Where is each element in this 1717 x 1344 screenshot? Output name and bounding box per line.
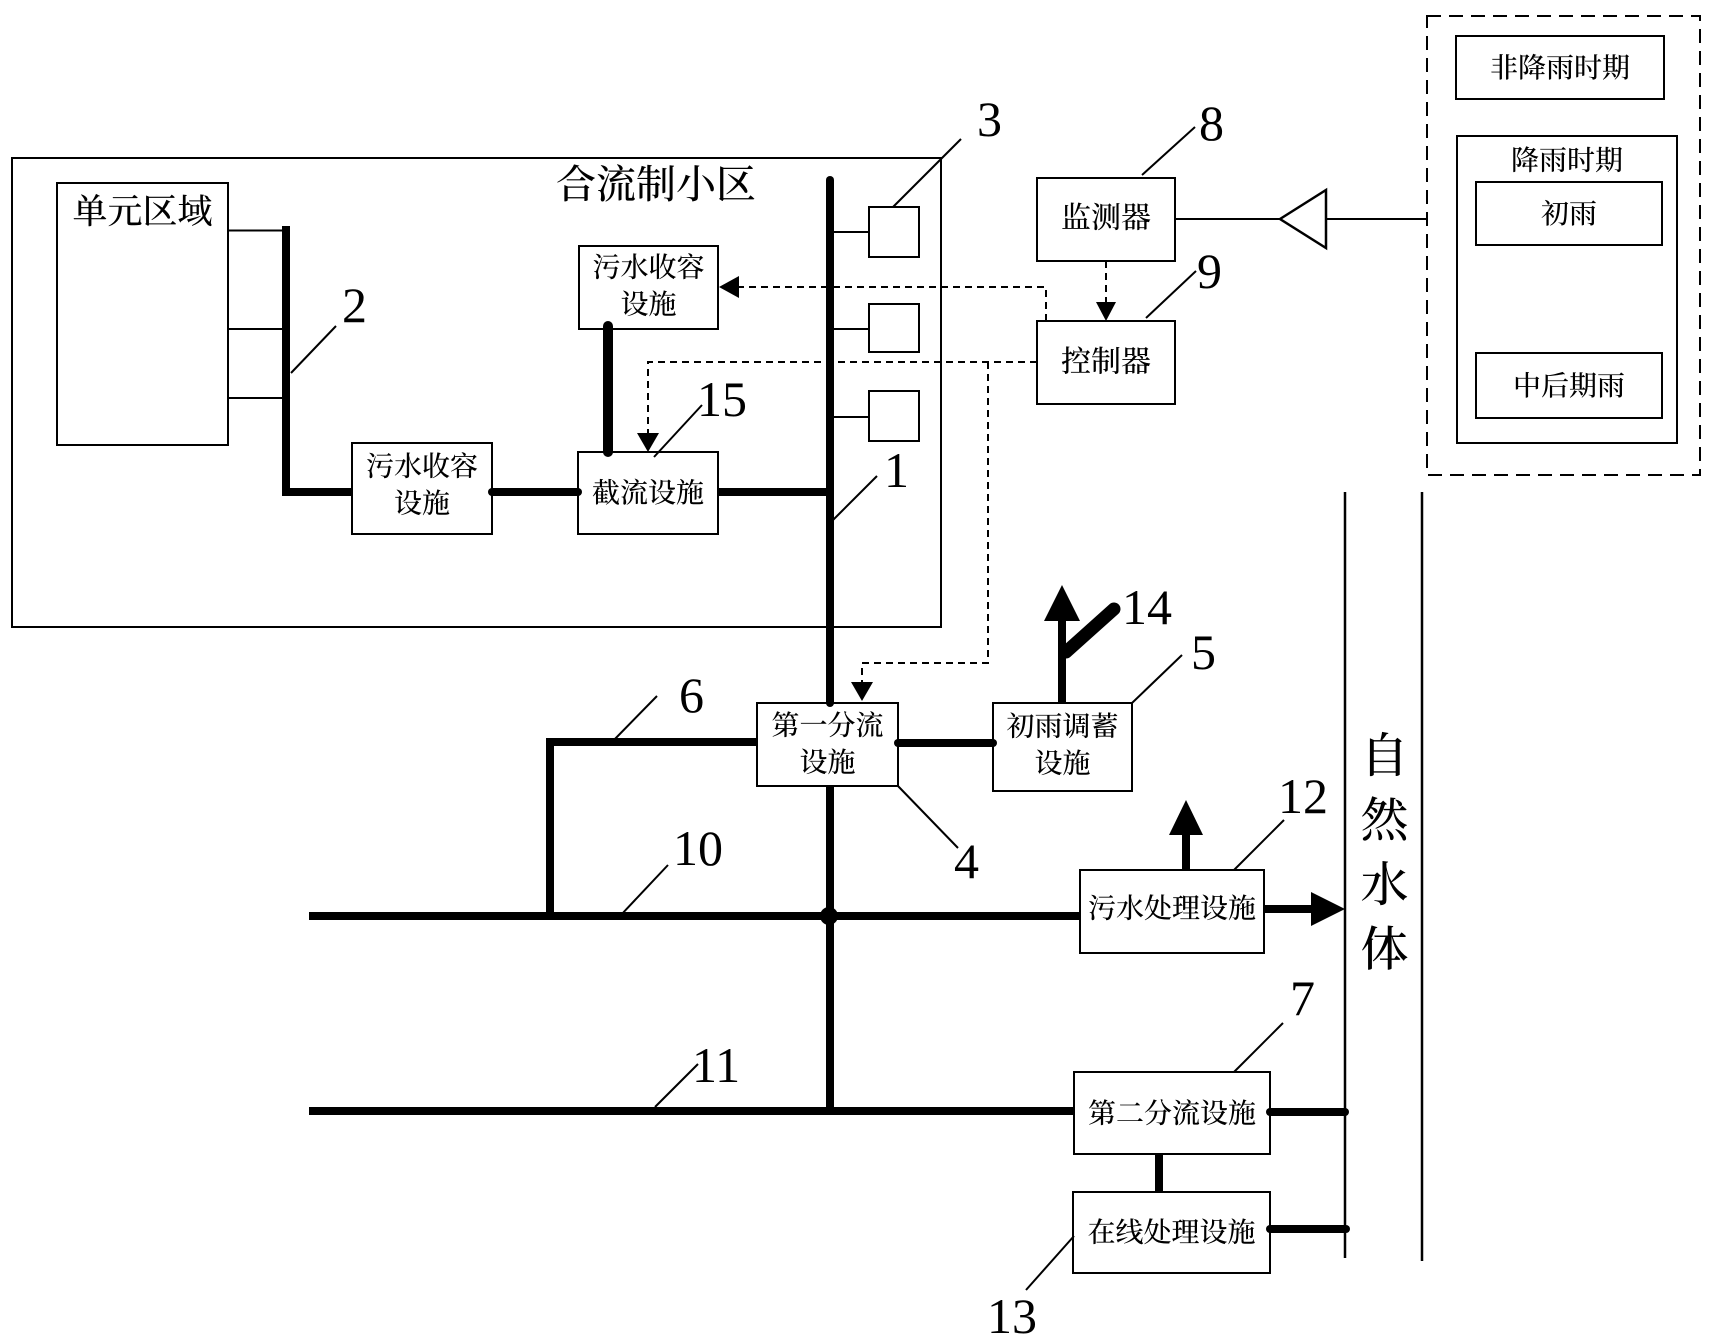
outer box combined-sewer district xyxy=(12,158,941,627)
leader 7 xyxy=(1234,1023,1283,1072)
leader 2 xyxy=(291,326,336,373)
leader 10 xyxy=(620,865,668,916)
arrowhead treatment right xyxy=(1311,892,1345,926)
label 初雨 xyxy=(1542,200,1596,226)
connector unit-area line b xyxy=(228,328,286,330)
leader 4 xyxy=(897,785,958,848)
connector main to manhole 3c xyxy=(834,416,869,418)
box 在线处理设施 (online treatment) xyxy=(1073,1192,1270,1273)
dashed controller to interceptor xyxy=(648,362,1037,436)
arrowhead to containment xyxy=(719,276,739,298)
label 污水处理设施 xyxy=(1089,894,1255,920)
label 中后期雨 xyxy=(1516,372,1624,398)
svg-text:10: 10 xyxy=(673,820,723,876)
wire second-divider to online-treatment xyxy=(1155,1154,1163,1192)
svg-text:8: 8 xyxy=(1199,95,1224,151)
title 合流制小区 xyxy=(557,164,754,201)
box 初雨 xyxy=(1476,182,1662,245)
label 自然水体 (vertical) xyxy=(1370,732,1402,776)
wire upper-containment to interceptor xyxy=(603,326,613,452)
dashed branch to first divider xyxy=(862,362,988,682)
label 单元区域 xyxy=(74,194,212,226)
dashed monitor to controller xyxy=(1105,261,1107,303)
svg-text:12: 12 xyxy=(1278,768,1328,824)
leader 9 xyxy=(1146,271,1196,318)
label 调蓄 设施 xyxy=(1036,749,1090,775)
wire 11 (trunk pipe) xyxy=(309,1107,1074,1115)
label lower 设施 xyxy=(395,489,449,515)
box 非降雨时期 xyxy=(1456,36,1664,99)
svg-text:11: 11 xyxy=(692,1037,740,1093)
square manhole 3a xyxy=(869,207,919,257)
box 截流设施 (interceptor) xyxy=(578,452,718,534)
svg-text:15: 15 xyxy=(697,371,747,427)
arrowhead storage up xyxy=(1044,585,1080,621)
dashed legend box xyxy=(1427,16,1700,475)
square manhole 3b xyxy=(869,304,919,352)
label 初雨调蓄 xyxy=(1007,712,1117,738)
wire legend to triangle xyxy=(1326,218,1427,220)
connector main to manhole 3b xyxy=(834,328,869,330)
svg-text:4: 4 xyxy=(954,833,979,889)
leader 3 xyxy=(893,139,961,207)
wire lower-containment to interceptor xyxy=(492,488,578,496)
box 初雨调蓄设施 (initial rain storage) xyxy=(993,703,1132,791)
arrowhead to first divider xyxy=(851,682,873,701)
label 第一 设施 xyxy=(801,748,855,774)
arrowhead treatment up xyxy=(1169,800,1203,835)
leader 6 xyxy=(612,696,657,742)
leader 15 xyxy=(654,405,702,457)
svg-text:9: 9 xyxy=(1197,243,1222,299)
leader 8 xyxy=(1142,127,1195,175)
box 监测器 (monitor) xyxy=(1037,178,1175,261)
svg-text:13: 13 xyxy=(987,1288,1037,1344)
arrowhead to interceptor xyxy=(637,433,659,452)
wire interceptor to main xyxy=(718,488,834,496)
label 截流设施 xyxy=(593,479,704,505)
hollow triangle arrow xyxy=(1280,190,1326,248)
box 降雨时期 xyxy=(1457,136,1677,443)
connector unit-area line c xyxy=(228,397,286,399)
wire main pipe 1 lower xyxy=(826,786,834,1111)
svg-text:1: 1 xyxy=(884,442,909,498)
leader 5 xyxy=(1132,655,1182,703)
box 第一分流设施 (first divider) xyxy=(757,703,898,786)
line water body right xyxy=(1421,492,1424,1261)
junction node main/line10 xyxy=(820,907,838,925)
wire treatment discharge up xyxy=(1182,834,1190,870)
label upper 污水收容 xyxy=(594,253,704,279)
svg-text:3: 3 xyxy=(977,91,1002,147)
line water body left xyxy=(1344,492,1347,1258)
dashed controller to upper containment xyxy=(739,287,1046,321)
connector unit-area line a xyxy=(228,230,286,232)
square manhole 3c xyxy=(869,391,919,441)
box 中后期雨 xyxy=(1476,353,1662,418)
box upper 污水收容设施 xyxy=(579,246,718,329)
leader 13 xyxy=(1026,1236,1074,1290)
label 第二分流设施 xyxy=(1089,1099,1255,1125)
box 单元区域 (unit area) xyxy=(57,183,228,445)
arrowhead to controller xyxy=(1096,302,1116,321)
wire 14 (reuse branch) xyxy=(1066,609,1114,652)
wire second-divider to water body xyxy=(1270,1108,1345,1116)
wire monitor input left xyxy=(1175,218,1281,220)
wire 10 (trunk pipe) xyxy=(309,912,1080,920)
label 降雨时期 xyxy=(1513,146,1622,172)
svg-text:6: 6 xyxy=(679,667,704,723)
wire 2 (unit area drain pipe) xyxy=(286,226,352,492)
label lower 污水收容 xyxy=(367,452,477,478)
box lower 污水收容设施 xyxy=(352,443,492,534)
box 污水处理设施 (sewage treatment) xyxy=(1080,870,1264,953)
label 第一分流 xyxy=(772,711,882,737)
label upper 设施 xyxy=(622,290,676,316)
label 控制器 xyxy=(1062,346,1151,374)
label 监测器 xyxy=(1062,202,1150,230)
wire online-treatment to water body xyxy=(1270,1225,1346,1233)
connector main to manhole 3a xyxy=(834,231,869,233)
svg-text:7: 7 xyxy=(1290,970,1315,1026)
wire first-divider to storage xyxy=(898,739,993,747)
wire treatment to water body xyxy=(1264,905,1314,913)
svg-text:5: 5 xyxy=(1191,624,1216,680)
svg-text:2: 2 xyxy=(342,277,367,333)
leader 11 xyxy=(655,1064,698,1107)
leader 12 xyxy=(1234,820,1284,870)
leader 1 xyxy=(833,476,877,520)
wire storage discharge up xyxy=(1058,616,1066,703)
label 非降雨时期 xyxy=(1491,54,1629,80)
label 在线处理设施 xyxy=(1088,1218,1254,1244)
wire main pipe 1 upper xyxy=(826,180,834,703)
box 控制器 (controller) xyxy=(1037,321,1175,404)
svg-text:14: 14 xyxy=(1122,579,1172,635)
box 第二分流设施 (second divider) xyxy=(1074,1072,1270,1154)
wire 6 (branch pipe) xyxy=(550,742,757,916)
